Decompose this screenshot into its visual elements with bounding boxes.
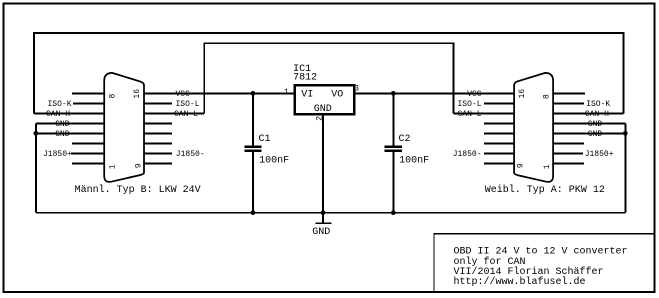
svg-text:VCC: VCC xyxy=(467,90,482,99)
svg-text:C1: C1 xyxy=(259,134,271,145)
svg-text:Männl. Typ B: LKW 24V: Männl. Typ B: LKW 24V xyxy=(75,184,201,196)
svg-text:J1850+: J1850+ xyxy=(585,150,614,159)
svg-text:1: 1 xyxy=(543,164,552,169)
svg-text:100nF: 100nF xyxy=(259,155,289,166)
svg-text:1: 1 xyxy=(284,88,289,97)
svg-text:only for CAN: only for CAN xyxy=(454,256,526,268)
svg-text:2: 2 xyxy=(316,116,325,121)
svg-text:Weibl. Typ A: PKW 12: Weibl. Typ A: PKW 12 xyxy=(485,184,605,196)
svg-text:1: 1 xyxy=(108,164,117,169)
svg-text:GND: GND xyxy=(588,120,603,129)
svg-text:16: 16 xyxy=(518,89,527,99)
svg-text:ISO-L: ISO-L xyxy=(457,100,481,109)
svg-text:ISO-K: ISO-K xyxy=(47,100,71,109)
svg-text:VI: VI xyxy=(301,89,313,100)
svg-text:9: 9 xyxy=(134,163,143,168)
svg-text:VCC: VCC xyxy=(176,90,191,99)
svg-text:C2: C2 xyxy=(399,134,411,145)
svg-text:GND: GND xyxy=(312,227,330,238)
svg-text:8: 8 xyxy=(542,94,551,99)
svg-text:8: 8 xyxy=(108,94,117,99)
svg-text:16: 16 xyxy=(133,89,142,99)
svg-text:ISO-L: ISO-L xyxy=(176,100,200,109)
svg-text:3: 3 xyxy=(354,85,359,94)
svg-text:http://www.blafusel.de: http://www.blafusel.de xyxy=(454,276,586,288)
svg-text:J1850-: J1850- xyxy=(176,150,205,159)
svg-text:J1850-: J1850- xyxy=(453,150,482,159)
svg-text:GND: GND xyxy=(588,130,603,139)
svg-text:CAN-L: CAN-L xyxy=(457,110,481,119)
svg-text:VO: VO xyxy=(331,89,343,100)
svg-text:GND: GND xyxy=(55,120,70,129)
svg-text:VII/2014 Florian Schäffer: VII/2014 Florian Schäffer xyxy=(454,266,604,278)
svg-text:GND: GND xyxy=(314,104,332,115)
svg-text:CAN-H: CAN-H xyxy=(585,110,609,119)
svg-text:9: 9 xyxy=(517,163,526,168)
svg-text:CAN-H: CAN-H xyxy=(46,110,70,119)
svg-text:J1850+: J1850+ xyxy=(43,150,72,159)
svg-text:ISO-K: ISO-K xyxy=(586,100,610,109)
svg-text:7812: 7812 xyxy=(293,72,317,83)
svg-text:GND: GND xyxy=(55,130,70,139)
svg-text:CAN-L: CAN-L xyxy=(174,110,198,119)
svg-text:100nF: 100nF xyxy=(399,155,429,166)
